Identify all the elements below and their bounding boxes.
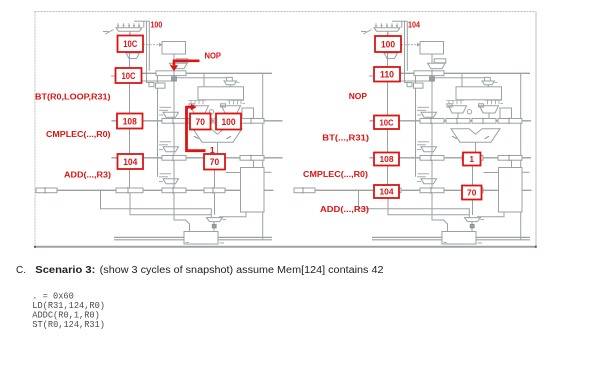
- right diagram wire: ALU output: [475, 142, 477, 155]
- right diagram rail: MEM-stage pipeline boundary: [370, 157, 532, 159]
- svg-text:BT(R0,LOOP,R31): BT(R0,LOOP,R31): [35, 91, 111, 101]
- right diagram annotation: RF-stage PC = 110: [374, 67, 400, 82]
- right diagram wire: feedback top horizontal: [392, 20, 407, 22]
- left diagram wire: store data to memory: [174, 193, 190, 232]
- left diagram adder: PC +4 increment: [126, 53, 140, 59]
- right diagram tick on IR register: [431, 70, 433, 77]
- right diagram annotation: MEM-stage Y = 1: [463, 153, 481, 166]
- right diagram box: write data path: [499, 168, 523, 213]
- left diagram box: Z detect: [242, 108, 254, 121]
- left diagram annotation: MEM-stage Y = 70: [204, 154, 225, 170]
- left diagram annotation: bypass path bracket: [187, 104, 206, 151]
- right diagram register: WB-stage IR: [420, 188, 444, 193]
- left diagram wire: write-back vertical: [262, 73, 264, 240]
- left diagram register: MEM-stage Y: [204, 156, 225, 161]
- right diagram register: MEM-stage PC: [420, 156, 444, 161]
- left diagram wire: WDSEL to data memory: [213, 222, 215, 232]
- right diagram wires: bypass arrows into mux B: [487, 100, 489, 104]
- left diagram box: IR select ctl: [176, 59, 188, 63]
- left diagram annotation: ALU-stage PC = 108: [117, 114, 143, 129]
- right diagram wire: Y register chain: [472, 160, 474, 188]
- left diagram mux: A operand bypass: [191, 106, 209, 113]
- left diagram box: write data path: [241, 168, 265, 213]
- right diagram mux: A operand bypass: [449, 106, 467, 113]
- right diagram rail: WB-stage boundary right stub: [522, 189, 532, 191]
- left diagram wire: branch feedback vertical 1: [147, 21, 154, 82]
- right diagram tick: ALU B input arrow: [485, 136, 490, 139]
- right diagram alu: ALU: [451, 129, 500, 142]
- left diagram wire: decode box down: [157, 88, 159, 177]
- svg-text:. = 0x60: . = 0x60: [32, 291, 74, 301]
- svg-text:70: 70: [467, 188, 477, 198]
- left diagram wire: RA2SEL to register file: [229, 85, 231, 87]
- left diagram annotation: MEM-stage PC = 104: [118, 154, 144, 169]
- right diagram tick: memory arrow right: [478, 242, 482, 244]
- left diagram rail: ALU-stage pipeline boundary: [112, 120, 283, 122]
- svg-text:Scenario 3:: Scenario 3:: [35, 265, 95, 276]
- left diagram wire: MEM reg to WD box: [253, 160, 255, 167]
- svg-text:70: 70: [196, 117, 205, 127]
- left diagram mux: IR MEM-stage bypass cluster: [160, 141, 172, 143]
- right diagram annotation: WB-stage PC = 104: [374, 185, 399, 198]
- left diagram register: WB-stage IR: [162, 188, 186, 193]
- right diagram wire: decode box down: [415, 88, 417, 177]
- left diagram wire: PC mux to PC register: [129, 31, 131, 35]
- left diagram mux: B operand bypass: [222, 106, 241, 113]
- figure border top: [35, 11, 537, 13]
- right diagram annotation: MEM-stage PC = 108: [374, 153, 399, 166]
- right diagram rail: memory address bus left: [372, 236, 442, 238]
- right diagram register: ALU-stage A: [446, 119, 470, 124]
- left diagram tick: below regfile right corner: [243, 103, 246, 105]
- left diagram alu: ALU: [193, 129, 242, 142]
- right diagram box: data memory: [442, 232, 476, 245]
- border corner dots: [34, 246, 36, 248]
- left diagram junction: SEXT circle: [209, 110, 213, 114]
- left diagram wire: instruction fields to RA2SEL: [176, 77, 226, 79]
- left diagram wire: PC+4 to WDSEL mux: [130, 193, 211, 215]
- left diagram box: instruction memory: [162, 42, 186, 55]
- right diagram tick: WDSEL select: [481, 219, 485, 221]
- right diagram wire: PC mux to PC register: [387, 31, 389, 35]
- right diagram register: ALU-stage PC: [420, 119, 444, 124]
- left diagram box: RA2SEL ctl: [227, 77, 233, 81]
- svg-text:ADD(...,R3): ADD(...,R3): [64, 170, 111, 180]
- right diagram box: instruction memory: [420, 42, 444, 55]
- left diagram wire: IR vertical down through stages: [173, 81, 175, 188]
- left diagram annotation: ALU operand A = 70: [190, 114, 211, 130]
- right diagram register: ALU-stage B: [472, 119, 496, 124]
- right diagram box: ASEL ctl: [447, 104, 452, 107]
- right diagram wire: IR vertical down through stages: [431, 81, 433, 188]
- right diagram box: IR select ctl: [434, 59, 446, 63]
- svg-text:CMPLEC(...,R0): CMPLEC(...,R0): [303, 169, 368, 179]
- right diagram rail: RF-stage pipeline boundary: [400, 72, 531, 74]
- left diagram wire: slanted stub left of PC mux: [106, 30, 114, 35]
- figure border bottom: [35, 246, 537, 248]
- svg-text:1: 1: [210, 145, 215, 155]
- right diagram annotation: IF-stage PC = 100: [375, 36, 401, 52]
- right diagram box: register file: [456, 87, 502, 100]
- right diagram wire: Y stub into WD box: [484, 172, 499, 174]
- left diagram mux: RA2SEL: [224, 81, 237, 85]
- left diagram wire: PC register to field tap: [142, 80, 172, 82]
- right diagram wire: MEM reg to WD box: [511, 160, 513, 167]
- svg-text:CMPLEC(...,R0): CMPLEC(...,R0): [46, 129, 111, 139]
- right diagram junction: memory write enable: [470, 224, 474, 227]
- right diagram tick: below regfile right corner: [501, 103, 504, 105]
- left diagram wires: bypass arrows into mux A: [190, 100, 192, 104]
- left diagram register: MEM-stage PC: [162, 156, 186, 161]
- left diagram tick: ALU A input arrow: [194, 136, 199, 139]
- left diagram rail: MEM-stage pipeline boundary: [112, 157, 283, 159]
- svg-text:LD(R31,124,R0): LD(R31,124,R0): [32, 301, 105, 311]
- right diagram adder: PC +4 increment: [384, 53, 398, 59]
- left diagram wire: branch feedback vertical 2: [148, 21, 150, 71]
- right diagram tick: ALU A input arrow: [452, 136, 457, 139]
- right diagram wires: PC mux input arrows: [375, 23, 377, 26]
- left diagram wire: Y stub into WD box: [226, 172, 241, 174]
- left diagram wire: stub into PC mux: [103, 31, 109, 33]
- left diagram register: ALU-stage PC: [162, 119, 186, 124]
- left diagram register: WB-stage far-left: [36, 188, 57, 193]
- right diagram register: WB-stage Y: [462, 188, 483, 193]
- left diagram rail: memory address bus left: [114, 236, 184, 238]
- svg-text:BT(...,R31): BT(...,R31): [322, 133, 369, 143]
- svg-text:ST(R0,124,R31): ST(R0,124,R31): [32, 320, 105, 330]
- left diagram register: WB-stage Y: [204, 188, 225, 193]
- svg-text:1: 1: [469, 154, 474, 164]
- left diagram register: IR-RF pipeline register: [156, 71, 186, 76]
- left diagram wire: WB value to WDSEL mux: [101, 190, 212, 217]
- left diagram annotation: NOP arrow: [170, 61, 200, 72]
- left diagram mux: IRSrc (NOP insert): [170, 63, 188, 68]
- right diagram wire: write data box to WDSEL mux: [477, 212, 504, 217]
- left diagram tick: ALU B input arrow: [227, 136, 232, 139]
- right diagram wire: tick right of RA2SEL: [495, 81, 498, 83]
- right diagram wire: instruction memory to IRSrc mux: [431, 54, 433, 63]
- right diagram wire: stub right of WD box: [522, 171, 530, 173]
- left diagram annotation: IF-stage PC = 10C: [118, 36, 144, 53]
- left diagram junction: instruction field tap: [172, 77, 177, 81]
- left diagram mux: IR ALU-stage bypass cluster: [160, 106, 172, 108]
- left diagram rail: WB-stage pipeline boundary: [36, 189, 240, 191]
- svg-text:100: 100: [151, 20, 163, 30]
- svg-text:ADD(...,R3): ADD(...,R3): [320, 204, 369, 214]
- left diagram wire: Y register to WDSEL: [214, 193, 216, 215]
- right diagram rail: memory data bus right: [476, 236, 531, 238]
- right diagram wire: instruction fields to RA2SEL: [434, 77, 484, 79]
- left diagram annotation: RF-stage PC = 10C: [116, 68, 142, 83]
- left diagram rail: WB-stage boundary right stub: [264, 189, 274, 191]
- left diagram wire: mux A to ALU reg: [199, 113, 201, 119]
- svg-text:104: 104: [123, 157, 138, 167]
- right diagram tick: memory RD: [444, 242, 447, 244]
- svg-text:10C: 10C: [121, 71, 135, 81]
- right diagram register: MEM-stage Y: [462, 156, 483, 161]
- right diagram wire: PC to instruction memory: [401, 44, 418, 46]
- left diagram mux: PC select (top): [116, 28, 142, 31]
- svg-text:104: 104: [408, 20, 420, 30]
- svg-text:70: 70: [210, 157, 219, 167]
- left diagram box: decode ctl B: [156, 83, 166, 88]
- left diagram wire: ALU output: [217, 142, 219, 155]
- right diagram annotation: ALU-stage PC = 10C: [374, 116, 399, 130]
- right diagram box: RA2SEL ctl: [485, 77, 491, 81]
- left diagram register: ALU-stage A: [188, 119, 212, 124]
- right diagram wire: stub into PC mux: [361, 31, 367, 33]
- left diagram register: WB-stage PC: [116, 188, 143, 193]
- right diagram mux: WDSEL: [465, 218, 481, 222]
- right diagram mux: IR MEM-stage bypass cluster: [418, 141, 430, 143]
- svg-text:10C: 10C: [123, 39, 137, 49]
- svg-text:100: 100: [381, 39, 395, 49]
- right diagram wire: bar to decode box: [415, 76, 417, 83]
- right diagram wire: write-back vertical: [520, 73, 522, 240]
- right diagram rail: WB-stage pipeline boundary: [294, 189, 498, 191]
- right diagram register: IR-RF pipeline register: [414, 71, 444, 76]
- svg-text:NOP: NOP: [205, 50, 222, 60]
- left diagram wire: PC chain vertical: [129, 33, 131, 188]
- svg-text:C.: C.: [16, 265, 26, 276]
- left diagram box: decode ctl A: [149, 83, 154, 87]
- svg-text:NOP: NOP: [349, 91, 367, 101]
- left diagram tick: memory arrow right: [220, 242, 224, 244]
- left diagram box: data memory: [184, 232, 218, 245]
- right diagram wire: rail to regfile RA1: [461, 73, 463, 87]
- left diagram wire: instruction memory to IRSrc mux: [173, 54, 175, 63]
- left diagram wires: bypass arrows into mux B: [229, 100, 231, 104]
- right diagram register: MEM-stage D: [498, 156, 522, 161]
- left diagram tick on IR register: [173, 70, 175, 77]
- right diagram wire: store data to memory: [432, 193, 448, 232]
- right diagram wire: WB value to WDSEL mux: [359, 190, 470, 217]
- svg-text:(show 3 cycles of snapshot) as: (show 3 cycles of snapshot) assume Mem[1…: [100, 265, 384, 276]
- left diagram register: MEM-stage D: [240, 156, 264, 161]
- svg-text:10C: 10C: [379, 117, 393, 127]
- right diagram annotation: WB-stage Y = 70: [462, 186, 482, 200]
- left diagram tick: WDSEL select: [223, 219, 227, 221]
- left diagram register: ALU-stage IR: [240, 119, 264, 124]
- right diagram mux: RA2SEL: [482, 81, 495, 85]
- svg-text:108: 108: [123, 116, 137, 126]
- left diagram wire: PC to instruction memory: [143, 44, 160, 46]
- left diagram wire: tick right of RA2SEL: [237, 81, 240, 83]
- left diagram wire: feedback top horizontal: [134, 20, 149, 22]
- svg-text:110: 110: [380, 70, 394, 80]
- right diagram wire: RA2SEL to register file: [487, 85, 489, 87]
- right diagram mux: B operand bypass: [480, 106, 499, 113]
- figure border right: [535, 12, 537, 248]
- left diagram rail: RF-stage pipeline boundary: [142, 72, 273, 74]
- right diagram wire: WDSEL to data memory: [471, 222, 473, 232]
- left diagram box: register file: [198, 87, 244, 100]
- right diagram wire: mux B to ALU reg: [488, 113, 490, 119]
- left diagram mux: IR WB-stage bypass cluster: [160, 173, 172, 175]
- right diagram wires: bypass arrows into mux A: [448, 100, 450, 104]
- left diagram wire: mux B to ALU reg: [230, 113, 232, 119]
- left diagram box: ASEL ctl: [189, 104, 194, 107]
- right diagram box: decode ctl B: [414, 83, 424, 88]
- right diagram junction: SEXT circle: [467, 110, 471, 114]
- left diagram wire: stub left of RF-stage PC register: [111, 75, 116, 77]
- left diagram box: BSEL ctl: [221, 104, 226, 107]
- left diagram register: ALU-stage B: [214, 119, 238, 124]
- left diagram wire: write data box to WDSEL mux: [219, 212, 246, 217]
- right diagram box: Z detect: [500, 108, 512, 121]
- svg-text:104: 104: [379, 187, 393, 197]
- left diagram wire: stub right of WD box: [264, 171, 272, 173]
- right diagram wire: slanted stub left of PC mux: [364, 30, 372, 35]
- left diagram wire: arrow into PC mux top: [143, 21, 145, 27]
- left diagram rail: memory data bus right: [218, 236, 273, 238]
- right diagram box: BSEL ctl: [479, 104, 484, 107]
- right diagram wire: branch feedback vertical 1: [405, 21, 412, 82]
- right diagram register: WB-stage far-left: [294, 188, 315, 193]
- svg-text:ADDC(R0,1,R0): ADDC(R0,1,R0): [32, 310, 100, 320]
- right diagram box: decode ctl A: [407, 83, 412, 87]
- right diagram wire: PC chain vertical: [387, 33, 389, 188]
- right diagram wire: PC register to field tap: [400, 80, 430, 82]
- right diagram junction: instruction field tap: [430, 77, 435, 81]
- right diagram wire: branch feedback vertical 2: [406, 21, 408, 71]
- right diagram wire: PC+4 to WDSEL mux: [388, 193, 469, 215]
- right diagram wire: Y register to WDSEL: [472, 193, 474, 215]
- left diagram wire: rail to regfile RA1: [203, 73, 205, 87]
- right diagram register: ALU-stage IR: [498, 119, 522, 124]
- svg-text:100: 100: [221, 117, 235, 127]
- right diagram register: WB-stage PC: [374, 188, 401, 193]
- left diagram wire: bar to decode box: [157, 76, 159, 83]
- right diagram wire: arrow into PC mux top: [401, 21, 403, 27]
- right diagram wire: stub left of RF-stage PC register: [369, 75, 374, 77]
- left diagram wires: PC mux input arrows: [117, 23, 119, 26]
- right diagram mux: IRSrc (NOP insert): [428, 63, 446, 68]
- left diagram tick: memory RD: [186, 242, 189, 244]
- left diagram junction: memory write enable: [212, 224, 216, 227]
- left diagram mux: WDSEL: [207, 218, 223, 222]
- right diagram rail: ALU-stage pipeline boundary: [370, 120, 532, 122]
- left diagram wire: Y register chain: [214, 160, 216, 188]
- right diagram mux: IR ALU-stage bypass cluster: [418, 106, 430, 108]
- right diagram mux: PC select (top): [374, 28, 400, 31]
- figure border left: [34, 12, 36, 248]
- right diagram mux: IR WB-stage bypass cluster: [418, 173, 430, 175]
- svg-text:108: 108: [379, 154, 393, 164]
- right diagram wire: mux A to ALU reg: [457, 113, 459, 119]
- left diagram annotation: ALU operand B = 100: [216, 114, 241, 130]
